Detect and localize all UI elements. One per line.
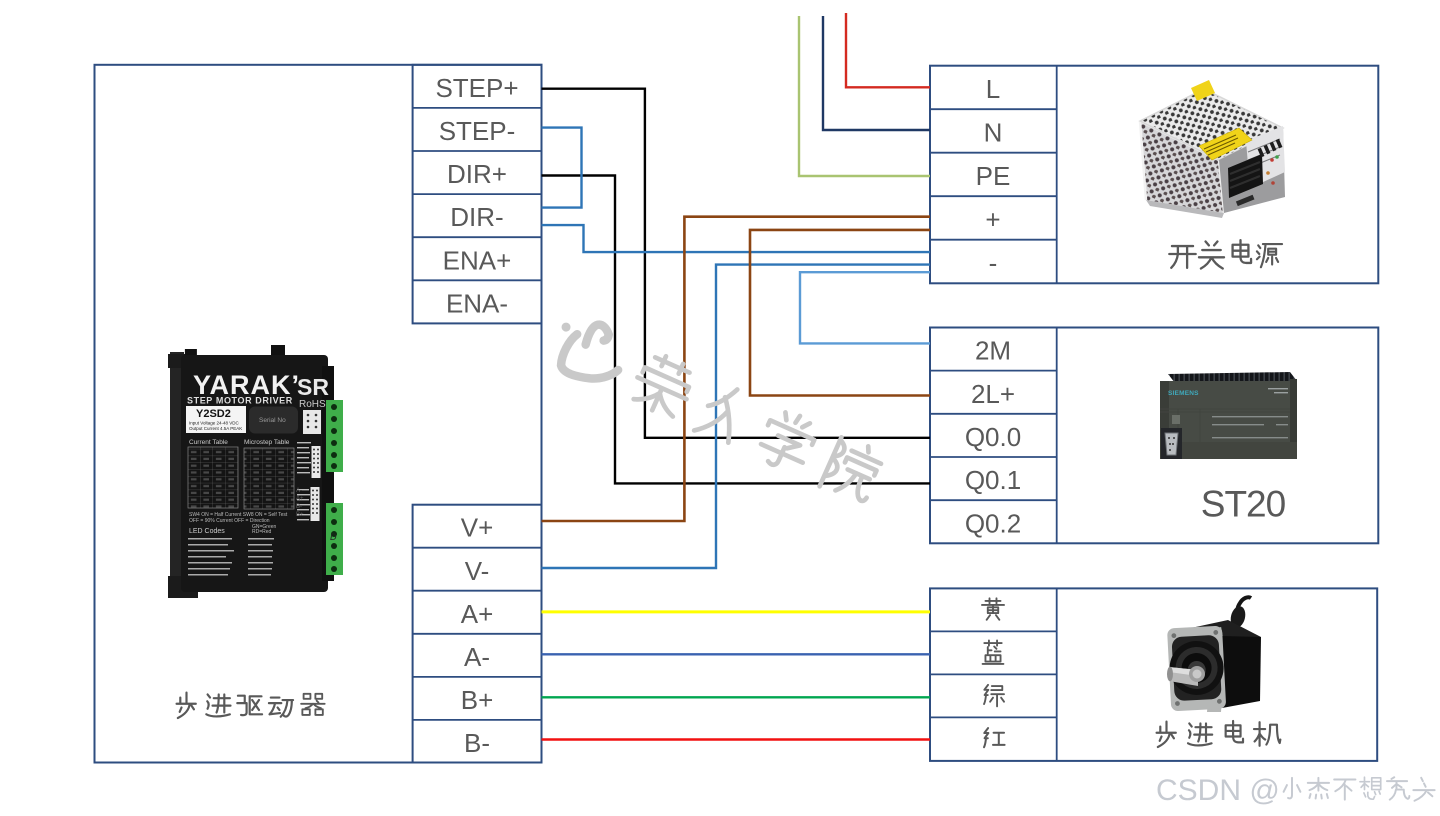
svg-text:L: L	[986, 74, 1000, 104]
pin label 黄	[982, 598, 1004, 619]
svg-text:CSDN @: CSDN @	[1156, 774, 1280, 807]
wire A+ to 黄 (yellow)	[542, 610, 931, 613]
pin label 蓝	[983, 640, 1004, 663]
svg-text:LED Codes: LED Codes	[189, 528, 225, 535]
svg-text:Input Voltage 24-48 VDC: Input Voltage 24-48 VDC	[189, 421, 240, 426]
svg-text:A-: A-	[464, 642, 490, 672]
caption 开关电源	[1169, 240, 1282, 268]
CSDN credit	[1156, 774, 1435, 807]
motor box 步进电机	[930, 588, 1377, 761]
driver terminal strip bottom (V/A/B)	[413, 505, 542, 763]
svg-text:Serial No: Serial No	[259, 417, 286, 424]
wire B- to 红 (red)	[542, 738, 931, 740]
svg-text:N: N	[984, 118, 1003, 148]
svg-text:SR: SR	[297, 374, 329, 400]
caption 步进驱动器	[177, 693, 325, 718]
svg-text:-: -	[989, 248, 998, 278]
wire mains PE (light green)	[799, 16, 930, 176]
wire mains L (red)	[846, 13, 930, 87]
wire mains N (navy)	[823, 16, 930, 130]
svg-text:Current Table: Current Table	[189, 439, 228, 446]
svg-text:PE: PE	[976, 161, 1011, 191]
svg-text:A+: A+	[461, 599, 494, 629]
svg-text:+: +	[985, 205, 1000, 235]
svg-text:DIR+: DIR+	[447, 159, 507, 189]
stepper motor photo	[1167, 597, 1261, 712]
wire PSU plus to 2L+ (brown)	[750, 230, 930, 396]
wire DIR+ to Q0.1 (black)	[542, 176, 931, 484]
svg-text:B+: B+	[461, 685, 494, 715]
PLC photo S7-200 SMART	[1160, 372, 1297, 459]
wire V- to PSU minus (blue)	[542, 265, 931, 568]
watermark logo and 荣久学院	[545, 310, 887, 505]
wire STEP+ to Q0.0 (black)	[542, 89, 931, 438]
svg-text:Q0.2: Q0.2	[965, 508, 1021, 538]
svg-text:A-: A-	[296, 488, 302, 494]
wire DIR- to PSU minus (blue)	[542, 225, 931, 252]
driver box (步进驱动器 component outline)	[95, 65, 542, 763]
power supply box 开关电源	[930, 66, 1378, 284]
svg-text:V-: V-	[465, 556, 490, 586]
svg-text:Microstep Table: Microstep Table	[244, 439, 290, 446]
svg-text:Q0.0: Q0.0	[965, 422, 1021, 452]
stepper driver photo YARAK SR	[168, 345, 343, 598]
svg-text:D: D	[330, 532, 337, 542]
wire A- to 蓝 (blue)	[542, 653, 931, 655]
svg-text:B+: B+	[296, 512, 304, 518]
svg-text:DIR-: DIR-	[450, 202, 503, 232]
svg-text:ENA+: ENA+	[443, 245, 512, 275]
svg-text:ENA-: ENA-	[446, 288, 508, 318]
svg-text:B-: B-	[464, 728, 490, 758]
svg-text:RoHS: RoHS	[299, 399, 326, 410]
svg-text:STEP-: STEP-	[439, 116, 516, 146]
PLC box ST20	[930, 328, 1378, 544]
wire STEP- to DIR- jumper (blue)	[542, 128, 582, 208]
pin label 绿	[984, 685, 1004, 706]
svg-text:SIEMENS: SIEMENS	[1168, 390, 1199, 397]
svg-text:Y2SD2: Y2SD2	[196, 408, 231, 420]
svg-text:RD=Red: RD=Red	[252, 529, 272, 535]
svg-text:2M: 2M	[975, 336, 1011, 366]
driver terminal strip top (STEP/DIR/ENA)	[413, 65, 542, 324]
svg-text:B-: B-	[296, 504, 302, 510]
svg-text:V+: V+	[461, 513, 494, 543]
caption 步进电机	[1157, 721, 1281, 747]
wire B+ to 绿 (green)	[542, 696, 931, 698]
svg-text:2L+: 2L+	[971, 379, 1015, 409]
svg-text:A+: A+	[296, 496, 304, 502]
svg-text:Q0.1: Q0.1	[965, 465, 1021, 495]
svg-text:Output Current 4.5A PEAK: Output Current 4.5A PEAK	[189, 426, 242, 431]
svg-text:STEP MOTOR DRIVER: STEP MOTOR DRIVER	[187, 396, 293, 406]
svg-text:ST20: ST20	[1201, 484, 1286, 525]
wire V+ to PSU plus (brown)	[542, 217, 931, 521]
pin label 红	[984, 728, 1005, 747]
wire PSU minus to 2M (light blue)	[800, 272, 930, 343]
switching power supply photo	[1140, 80, 1285, 218]
svg-text:STEP+: STEP+	[435, 73, 518, 103]
